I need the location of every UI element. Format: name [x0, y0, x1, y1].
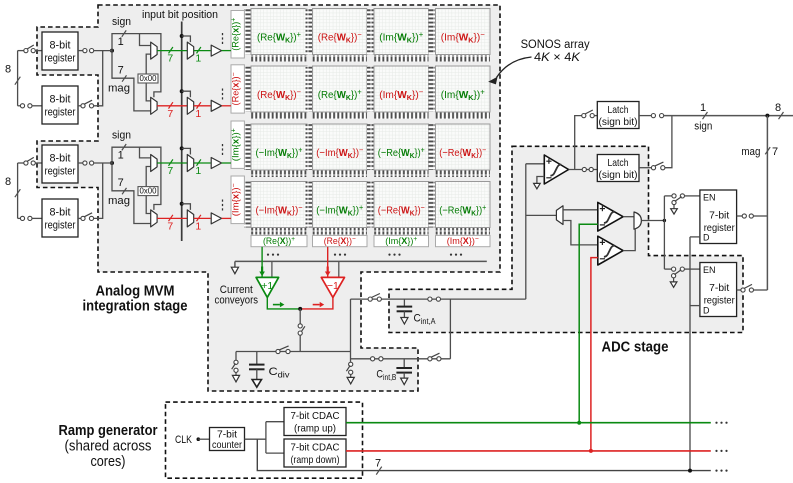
- svg-text:1: 1: [700, 102, 706, 114]
- channel Im wire: pos 1-bit: [194, 162, 211, 164]
- channel Im node: bit position tap neg: [180, 202, 184, 206]
- demux (ramp phase select): [556, 206, 563, 225]
- Re bus slash: [15, 77, 21, 85]
- svg-text:(Im{x})+: (Im{x})+: [231, 128, 242, 161]
- svg-text:(−Im{WK})+: (−Im{WK})+: [316, 203, 363, 218]
- channel Re wire: mag path: [112, 51, 151, 111]
- 7-bit CDAC (ramp down): [284, 439, 346, 467]
- svg-text:(Re{WK})+: (Re{WK})+: [257, 30, 301, 45]
- input row label box 3: [231, 121, 245, 168]
- capacitor C_int,A: [403, 299, 405, 306]
- svg-text:Latch: Latch: [608, 104, 629, 116]
- wire: EN2 into register: [684, 268, 700, 270]
- channel Re neg polarity mux: [151, 97, 157, 114]
- current conveyor −1: [321, 277, 344, 297]
- arrow: red output direction: [313, 304, 320, 306]
- wire: comparator1 minus stub: [537, 177, 544, 184]
- ellipsis under column 3: [388, 254, 400, 256]
- latch U2 (sign bit): [597, 102, 639, 129]
- channel Im row driver buffer neg: [211, 213, 221, 224]
- channel Re bit-select mux pos: [187, 42, 193, 59]
- svg-text:(−Re{WK})−: (−Re{WK})−: [439, 146, 486, 161]
- svg-text:cores): cores): [91, 454, 126, 470]
- svg-text:mag: mag: [108, 195, 130, 207]
- svg-text:−1: −1: [327, 280, 339, 292]
- svg-text:8-bit: 8-bit: [50, 40, 71, 52]
- svg-text:1: 1: [118, 36, 124, 48]
- svg-text:Latch: Latch: [608, 157, 629, 169]
- Im bus slash: [15, 189, 21, 197]
- comparator U4 (ramp up): [598, 202, 623, 231]
- channel Re slash 7-bit neg: [169, 102, 173, 108]
- svg-text:conveyors: conveyors: [215, 294, 259, 306]
- svg-text:0x00: 0x00: [140, 73, 157, 83]
- column label box 2: [313, 235, 368, 247]
- svg-text:(−Im{WK})−: (−Im{WK})−: [316, 146, 363, 161]
- channel Re node: bit position tap neg: [180, 89, 184, 93]
- channel Re wire: pos 7-bit: [157, 50, 187, 52]
- channel Im slash: mag 7-bit: [122, 188, 126, 194]
- channel Re slash: mag 7-bit: [122, 75, 126, 81]
- SONOS array tile row3 col1: [244, 124, 307, 177]
- column label box 4: [436, 235, 491, 247]
- channel Re bit-select mux neg: [187, 97, 193, 114]
- svg-text:(Im{X})+: (Im{X})+: [385, 236, 417, 247]
- channel Im wire: bit position to mux pos: [182, 148, 191, 154]
- wire: CDAC feed split: [265, 422, 267, 453]
- ellipsis: ramp up continues: [715, 422, 727, 424]
- 7-bit counter: [210, 428, 245, 451]
- switch: Cint,B left (closed): [371, 357, 375, 361]
- SONOS array tile row2 col3: [367, 66, 429, 119]
- SONOS array tile row2 col4: [429, 66, 491, 119]
- svg-text:(−Re{WK})+: (−Re{WK})+: [378, 146, 425, 161]
- wire: mag vertical line: [766, 116, 768, 290]
- channel Im slash: sign 1-bit: [122, 144, 126, 150]
- Re switch: register A output (closed): [83, 49, 87, 53]
- input row label box 1: [231, 11, 245, 59]
- Re switch: register A input (open): [24, 49, 28, 53]
- wire: green column feed: [261, 247, 263, 277]
- svg-text:(Im{x})−: (Im{x})−: [231, 183, 242, 216]
- channel Im wire: neg 7-bit: [157, 217, 187, 219]
- Im input bus vertical: [17, 163, 19, 218]
- ellipsis under column 2: [334, 254, 346, 256]
- comparator U1 (sign): [544, 155, 568, 184]
- Re wire: register A output: [78, 50, 83, 52]
- svg-text:1: 1: [195, 108, 201, 120]
- svg-text:(Re{x})+: (Re{x})+: [231, 18, 242, 51]
- SONOS array tile row1 col4: [429, 9, 491, 62]
- Im wire: switch to register B: [32, 217, 42, 219]
- wire: conveyor input bus: [235, 260, 487, 262]
- channel Re node: bit position tap pos: [180, 34, 184, 38]
- svg-text:(Re{WK})+: (Re{WK})+: [318, 88, 362, 103]
- wire: Cint,B to A rail riser: [449, 299, 451, 359]
- Re wire: register B to shared node: [94, 51, 103, 106]
- svg-text:7: 7: [118, 177, 124, 189]
- channel Im wire: buffer to array neg: [222, 217, 231, 219]
- Im switch: register B input (closed): [20, 216, 24, 220]
- Re input bus vertical: [17, 51, 19, 106]
- svg-text:7-bit: 7-bit: [709, 210, 729, 221]
- wire: integration rail A: [351, 298, 526, 300]
- svg-text:4K × 4K: 4K × 4K: [534, 52, 581, 64]
- channel Re wire: buffer to array pos: [222, 50, 231, 52]
- channel Re wire: 0x00 to upper mux: [146, 54, 151, 74]
- channel Re wire: bit position to mux neg: [182, 91, 191, 97]
- svg-text:CLK: CLK: [175, 434, 193, 446]
- switch: latch1 input (open): [582, 114, 586, 118]
- channel Re pos polarity mux: [151, 42, 157, 59]
- channel Im wire: sign path: [112, 147, 161, 210]
- column label box 1: [251, 235, 307, 247]
- SONOS array tile row4 col2: [306, 182, 368, 235]
- svg-text:(−Re{WK})−: (−Re{WK})−: [378, 203, 425, 218]
- wire: comparator2 output: [623, 216, 634, 218]
- column label box 3: [374, 235, 429, 247]
- wire: register2 output: [737, 289, 741, 291]
- SONOS array tile row2 col1: [244, 66, 307, 119]
- svg-text:ADC stage: ADC stage: [602, 340, 669, 356]
- svg-text:SONOS array: SONOS array: [521, 39, 590, 51]
- wire: red column feed: [327, 247, 329, 277]
- channel Re slash: sign 1-bit: [122, 30, 126, 36]
- svg-text:sign: sign: [694, 121, 712, 133]
- channel Im slash 7-bit pos: [169, 159, 173, 165]
- svg-text:7: 7: [167, 108, 173, 120]
- svg-text:(ramp up): (ramp up): [294, 423, 336, 435]
- svg-text:(−Re{WK})+: (−Re{WK})+: [439, 203, 486, 218]
- svg-text:register: register: [45, 107, 76, 119]
- svg-text:(Im{WK})+: (Im{WK})+: [379, 30, 423, 45]
- Re wire: switch to register B: [32, 105, 42, 107]
- wire: latch2 output: [639, 167, 652, 169]
- channel Im wire: mag path: [112, 163, 151, 224]
- channel Im wire: neg 1-bit: [194, 217, 211, 219]
- slash: 8-bit out: [779, 112, 784, 119]
- svg-text:7-bit CDAC: 7-bit CDAC: [291, 442, 340, 454]
- vertical ellipsis row 4: [222, 200, 224, 211]
- wire: counter output: [245, 438, 266, 440]
- switch: comparator1 out (closed): [582, 167, 586, 171]
- vertical ellipsis row 3: [222, 144, 224, 155]
- current conveyor +1: [256, 277, 279, 297]
- wire: mux output to EN riser: [641, 220, 664, 222]
- wire: node down to switch: [299, 309, 301, 324]
- svg-text:(−Im{WK})+: (−Im{WK})+: [256, 146, 303, 161]
- svg-text:mag: mag: [741, 146, 760, 158]
- wire: comparator1 to latch1 riser: [575, 116, 582, 170]
- ellipsis under column 1: [267, 254, 279, 256]
- wire: register1 output: [737, 215, 743, 217]
- vertical ellipsis row 1: [222, 33, 224, 44]
- svg-text:7: 7: [772, 146, 778, 158]
- wire: switch to divider rail: [299, 335, 301, 351]
- channel Im slash 1-bit neg: [197, 215, 201, 221]
- 8-bit register ImA: [42, 145, 78, 183]
- svg-text:(sign bit): (sign bit): [599, 169, 638, 181]
- Re wire: bus to register B: [18, 105, 21, 107]
- wire: comparator3 output: [623, 229, 635, 250]
- svg-text:Ramp generator: Ramp generator: [59, 423, 158, 439]
- Im switch: register A output (closed): [83, 161, 87, 165]
- svg-text:7: 7: [375, 458, 381, 470]
- Im wire: bus to register A: [18, 162, 24, 164]
- SONOS array tile row4 col1: [244, 182, 307, 235]
- input row label box 2: [231, 65, 245, 113]
- output mux (comparator combine): [634, 212, 641, 229]
- latch U3 (sign bit): [597, 155, 639, 182]
- 8-bit register ImB: [42, 199, 78, 237]
- channel Re wire: neg 1-bit: [194, 105, 211, 107]
- channel Im neg polarity mux: [151, 210, 157, 227]
- svg-text:8-bit: 8-bit: [50, 94, 71, 106]
- wire: +1 output: [267, 297, 300, 309]
- vertical ellipsis row 2: [222, 89, 224, 100]
- channel Im bit-select mux neg: [187, 210, 193, 227]
- wire: latch1 output: [639, 115, 652, 117]
- SONOS array tile row1 col3: [367, 9, 429, 62]
- svg-text:EN: EN: [703, 192, 716, 202]
- svg-text:(Im{WK})−: (Im{WK})−: [441, 30, 485, 45]
- switch: rail series (open): [276, 349, 280, 353]
- Im switch: register B output (open): [81, 216, 85, 220]
- wire: into latch1: [594, 115, 597, 117]
- node: D bus junction: [688, 469, 692, 473]
- svg-text:register: register: [45, 166, 76, 178]
- wire: EN riser: [663, 196, 665, 269]
- channel Im slash 7-bit neg: [169, 215, 173, 221]
- comparator U5 (ramp down): [598, 236, 623, 265]
- svg-text:(Re{X})+: (Re{X})+: [263, 236, 295, 247]
- capacitor C_div: [256, 352, 258, 364]
- svg-text:(Im{WK})−: (Im{WK})−: [379, 88, 423, 103]
- wire: CLK to counter: [198, 438, 209, 440]
- wire: ramp-up reference (green): [579, 224, 598, 423]
- Re wire: bus to register A: [18, 50, 24, 52]
- SONOS array tile row1 col1: [244, 9, 307, 62]
- switch+ground: Cint,B discharge: [349, 362, 353, 366]
- wire: divider rail: [236, 351, 351, 353]
- svg-text:Analog MVM: Analog MVM: [96, 283, 175, 299]
- 8-bit register ReB: [42, 86, 78, 124]
- channel Re slash 7-bit pos: [169, 47, 173, 53]
- svg-text:mag: mag: [108, 82, 130, 94]
- 7-bit CDAC (ramp up): [284, 408, 346, 436]
- node: EN riser junction: [663, 219, 666, 222]
- channel Im wire: 0x00 to upper mux: [146, 167, 151, 187]
- wire: register2 to mag corner: [754, 289, 768, 291]
- wire: counter code to output bus: [257, 439, 711, 470]
- channel Im node: bit position tap pos: [180, 146, 184, 150]
- 8-bit register ReA: [42, 32, 78, 70]
- svg-text:(ramp down): (ramp down): [291, 454, 340, 466]
- svg-text:7-bit: 7-bit: [709, 283, 729, 294]
- svg-text:8: 8: [5, 176, 11, 188]
- svg-text:7-bit CDAC: 7-bit CDAC: [291, 410, 340, 422]
- svg-text:sign: sign: [112, 130, 131, 142]
- ellipsis under column 4: [450, 254, 462, 256]
- wire: D1 input: [690, 236, 700, 238]
- Re switch: register B output (open): [81, 104, 85, 108]
- ground: comparator1 minus: [534, 183, 541, 188]
- switch: integrate (vertical): [298, 324, 302, 328]
- svg-text:7: 7: [118, 64, 124, 76]
- SONOS array tile row4 col3: [367, 182, 429, 235]
- channel Im wire: sign to upper mux: [140, 147, 151, 158]
- switch: Cint,B right (open): [428, 357, 432, 361]
- SONOS array tile row3 col4: [429, 124, 491, 177]
- wire: to CDAC up: [266, 421, 284, 423]
- wire: riser to EN2 switch: [664, 268, 671, 270]
- switch: Cint,A right (closed): [428, 297, 432, 301]
- Im wire: switch to register A: [35, 162, 42, 164]
- switch: register1 output (closed): [742, 214, 746, 218]
- svg-text:1: 1: [195, 165, 201, 177]
- input bit position select line: [181, 22, 183, 242]
- wire: demux to comparator2: [563, 209, 598, 211]
- svg-text:8-bit: 8-bit: [50, 153, 71, 165]
- channel Im constant 0x00 box: [138, 187, 158, 196]
- wire: riser to EN1 switch: [664, 195, 672, 197]
- Re wire: switch to register A: [35, 50, 42, 52]
- channel Im node: sign/mag split junction: [110, 161, 114, 165]
- wire: register1 to mag line: [753, 215, 767, 217]
- svg-text:0x00: 0x00: [140, 186, 157, 196]
- Im switch: register A input (open): [24, 161, 28, 165]
- wire: bus stub to -1 conveyor: [338, 261, 340, 277]
- wire: Cint,B rail: [351, 358, 451, 360]
- wire: sign output line: [664, 115, 793, 117]
- svg-text:7: 7: [167, 165, 173, 177]
- switch: register2 output (open): [741, 288, 745, 292]
- Im wire: register B to shared node: [94, 163, 103, 218]
- wire: latch2 output riser to sign line: [665, 116, 672, 168]
- SONOS array tile row3 col3: [367, 124, 429, 177]
- Im wire: register A output: [78, 162, 83, 164]
- svg-text:8: 8: [775, 102, 781, 114]
- arrow: red current down: [327, 267, 329, 272]
- channel Im wire: buffer to array pos: [222, 162, 231, 164]
- channel Re wire: bit position to mux pos: [182, 36, 191, 42]
- svg-text:(sign bit): (sign bit): [599, 116, 638, 128]
- channel Re wire: buffer to array neg: [222, 105, 231, 107]
- channel Re wire: pos 1-bit: [194, 50, 211, 52]
- svg-text:counter: counter: [212, 439, 242, 451]
- arrow: green output direction: [273, 304, 280, 306]
- svg-text:1: 1: [118, 150, 124, 162]
- svg-text:1: 1: [195, 53, 201, 65]
- switch: latch1 output (closed): [651, 114, 655, 118]
- Re wire: register A output to junction: [94, 50, 112, 52]
- SONOS array tile row4 col4: [429, 182, 491, 235]
- channel Im wire: 0x00 to lower mux: [146, 196, 151, 214]
- svg-text:7: 7: [167, 53, 173, 65]
- channel Re node: sign/mag split junction: [110, 49, 114, 53]
- switch: EN1 select: [672, 194, 676, 198]
- node: CLK stub: [197, 437, 201, 441]
- node: red ramp junction: [589, 449, 593, 453]
- slash: counter bus 7-bit: [376, 467, 382, 475]
- 7-bit register U6: [700, 190, 737, 244]
- svg-text:EN: EN: [703, 265, 716, 275]
- channel Re wire: sign path: [112, 34, 161, 98]
- Analog MVM integration stage region (dashed, gray fill): [37, 5, 500, 391]
- wire: bus stub to +1 conveyor: [271, 261, 273, 277]
- svg-text:(Re{WK})−: (Re{WK})−: [257, 88, 301, 103]
- channel Re wire: sign to upper mux: [140, 34, 151, 46]
- wire: ramp-down reference (red): [591, 258, 598, 451]
- wire: demux to comparator3: [563, 221, 598, 245]
- wire: D2 input: [690, 305, 700, 307]
- svg-text:register: register: [45, 220, 76, 232]
- channel Re row driver buffer neg: [211, 100, 221, 111]
- switch: EN2 select: [672, 267, 676, 271]
- svg-text:8-bit: 8-bit: [50, 207, 71, 219]
- svg-text:D: D: [703, 233, 710, 243]
- svg-text:(Re{X})−: (Re{X})−: [324, 236, 356, 247]
- svg-text:7: 7: [167, 220, 173, 232]
- switch: Cint,A left (open): [368, 297, 372, 301]
- wire: −1 output: [300, 297, 333, 309]
- wire: ramp down line (red): [346, 450, 711, 452]
- 7-bit register U7: [700, 263, 737, 317]
- wire: ramp up line (green): [346, 422, 711, 424]
- svg-text:(shared across: (shared across: [65, 438, 152, 454]
- channel Re wire: 0x00 to lower mux: [146, 83, 151, 101]
- switch: latch2 output (open): [651, 166, 655, 170]
- wire: integration rail to comparators: [525, 164, 527, 299]
- svg-text:sign: sign: [112, 16, 131, 28]
- wire: EN1 into register: [685, 195, 700, 197]
- svg-text:integration stage: integration stage: [83, 298, 188, 314]
- channel Re constant 0x00 box: [138, 74, 158, 83]
- ground: bus left end: [234, 261, 236, 267]
- channel Im wire: pos 7-bit: [157, 162, 187, 164]
- Re switch: register B input (closed): [20, 104, 24, 108]
- slash: mag 7-bit: [765, 147, 770, 154]
- wire: rail left drop: [235, 352, 237, 360]
- node: conveyor output: [298, 307, 302, 311]
- channel Re wire: neg 7-bit: [157, 105, 187, 107]
- wire: to CDAC down: [266, 452, 284, 454]
- svg-text:D: D: [703, 305, 710, 315]
- capacitor C_int,B: [403, 359, 405, 368]
- ellipsis: code bus continues: [715, 470, 727, 472]
- channel Im slash 1-bit pos: [197, 159, 201, 165]
- SONOS array tile row2 col2: [306, 66, 368, 119]
- Im wire: register A output to junction: [94, 162, 112, 164]
- svg-text:(Im{WK})+: (Im{WK})+: [441, 88, 485, 103]
- SONOS array tile row3 col2: [306, 124, 368, 177]
- Im wire: register B output: [78, 217, 81, 219]
- channel Re slash 1-bit neg: [197, 102, 201, 108]
- svg-text:(Im{X})−: (Im{X})−: [447, 236, 479, 247]
- slash: sign 1-bit: [703, 112, 708, 119]
- Re wire: register B output: [78, 105, 81, 107]
- svg-text:8: 8: [5, 64, 11, 76]
- Ramp generator region (dashed box): [166, 402, 363, 478]
- node: sign/mag merge: [765, 114, 769, 118]
- wire: D bus riser: [689, 237, 691, 471]
- wire: rail riser to integration node: [350, 299, 352, 362]
- input row label box 4: [231, 176, 245, 224]
- svg-text:(Re{WK})−: (Re{WK})−: [318, 30, 362, 45]
- ellipsis: ramp down continues: [715, 450, 727, 452]
- svg-text:register: register: [45, 53, 76, 65]
- SONOS array tile row1 col2: [306, 9, 368, 62]
